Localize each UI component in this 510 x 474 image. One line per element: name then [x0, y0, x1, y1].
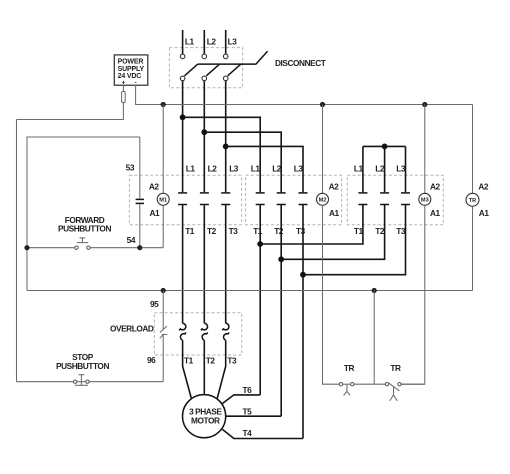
wire: M3 coil A1 lead down to TR contact — [401, 205, 425, 384]
wire: stop pushbutton line — [17, 381, 74, 383]
svg-text:T2: T2 — [207, 226, 217, 236]
contactor M2 dashed enclosure — [246, 175, 342, 225]
wire: phase C from disconnect to M1 contact — [225, 81, 227, 193]
M3 main contact pole 2 — [380, 193, 389, 205]
wire: L1 incoming line — [182, 30, 184, 54]
svg-text:T1: T1 — [184, 355, 194, 365]
wire: +24V from power supply — [122, 85, 124, 91]
svg-text:T1: T1 — [253, 226, 263, 236]
wire: overload to motor T2 — [203, 340, 205, 395]
wire: tie M2 T3 to M3 T3 — [303, 205, 406, 275]
svg-text:TR: TR — [344, 363, 355, 373]
M3 main contact pole 1 — [358, 193, 367, 205]
wire: M3 star bridge bar — [363, 145, 406, 147]
svg-text:L3: L3 — [228, 37, 238, 47]
svg-text:A2: A2 — [149, 181, 160, 191]
wire: M3 L3 drop — [405, 146, 407, 192]
node: phase A tap — [180, 114, 186, 120]
forward pushbutton PB1 (NO) — [75, 238, 90, 250]
M3 main contact pole 3 — [401, 193, 410, 205]
wire: motor T6 lead — [222, 395, 260, 404]
wire: M1 T2 to overload heater — [203, 205, 205, 324]
svg-text:A2: A2 — [478, 181, 489, 191]
svg-text:T6: T6 — [243, 385, 253, 395]
overload heater OL3 — [222, 323, 229, 330]
svg-text:T3: T3 — [296, 226, 306, 236]
node: M2 T1 / M3 T1 junction — [257, 241, 263, 247]
svg-text:A1: A1 — [479, 208, 490, 218]
TR timed contact 1 (closing) — [339, 383, 354, 396]
svg-text:A1: A1 — [430, 208, 441, 218]
svg-text:T1: T1 — [185, 226, 195, 236]
wire: M1 coil A2 lead — [162, 105, 164, 194]
svg-text:L1: L1 — [186, 164, 196, 174]
M1 main contact pole 2 — [200, 193, 209, 205]
svg-text:M2: M2 — [319, 198, 327, 204]
wire: +24V down and left to rail — [17, 102, 124, 119]
svg-text:T2: T2 — [274, 226, 284, 236]
svg-text:DISCONNECT: DISCONNECT — [275, 58, 326, 68]
overload NC contact 95-96 — [160, 326, 168, 338]
wire: -24V from power supply to coil bus — [136, 85, 473, 104]
node: overload branch — [161, 288, 166, 293]
M2 main contact pole 3 — [299, 193, 308, 205]
svg-text:L3: L3 — [396, 164, 406, 174]
coil M3 — [419, 193, 431, 205]
node: M3 coil bus tap — [422, 102, 427, 107]
wire: aux contact 54 lead — [139, 204, 141, 248]
fuse F1 — [122, 92, 126, 103]
svg-text:L1: L1 — [185, 37, 195, 47]
svg-text:M1: M1 — [159, 198, 167, 204]
wire: phase C feeder to M2 — [226, 146, 303, 192]
svg-text:L2: L2 — [272, 164, 282, 174]
power supply PS1 box — [114, 55, 148, 87]
TR timed contact 2 (opening) — [385, 383, 401, 401]
svg-text:PUSHBUTTON: PUSHBUTTON — [58, 223, 111, 233]
wire: TR contact row segments — [343, 383, 351, 385]
svg-text:T1: T1 — [354, 226, 364, 236]
wire: M3 L2 drop — [384, 146, 386, 192]
disconnect gang linkage and handle — [198, 51, 268, 64]
svg-text:A2: A2 — [430, 181, 441, 191]
wire: forward pushbutton line left — [27, 247, 75, 249]
coil M2 — [317, 193, 329, 205]
wire: M2 T2 lead down — [280, 205, 282, 417]
wire: M2 T3 lead down — [302, 205, 304, 439]
node: M2 coil bus tap — [320, 102, 325, 107]
wire: M3 coil A2 lead — [424, 105, 426, 194]
svg-text:A2: A2 — [329, 181, 340, 191]
svg-text:POWER: POWER — [118, 59, 144, 66]
svg-text:96: 96 — [147, 355, 156, 365]
disconnect switch pole 1 — [180, 54, 198, 81]
svg-text:OVERLOAD: OVERLOAD — [110, 323, 154, 333]
stop pushbutton PB2 (NC) — [74, 375, 90, 386]
svg-text:L3: L3 — [229, 164, 239, 174]
wire: bus drop to TR coil — [472, 105, 474, 194]
svg-text:T4: T4 — [243, 428, 253, 438]
svg-text:TR: TR — [390, 363, 401, 373]
svg-text:T3: T3 — [227, 355, 237, 365]
M1 main contact pole 3 — [221, 193, 230, 205]
disconnect switch pole 3 — [223, 54, 241, 81]
wire: overload to motor T1 — [183, 340, 192, 400]
wire: retaining branch top — [27, 137, 140, 291]
svg-text:54: 54 — [127, 235, 136, 245]
wire: M2 coil A2 lead — [322, 105, 324, 194]
svg-text:T5: T5 — [243, 406, 253, 416]
wire: M3 L1 drop — [362, 146, 364, 192]
wire: left +24V rail — [16, 120, 18, 382]
node: M2 T2 / M3 T2 junction — [278, 256, 284, 262]
svg-text:L2: L2 — [208, 164, 218, 174]
contactor M3 dashed enclosure — [347, 175, 443, 225]
svg-text:A1: A1 — [329, 208, 340, 218]
wire: overload 95 lead — [162, 291, 164, 331]
contactor M1 dashed enclosure — [129, 175, 241, 225]
disconnect dashed enclosure — [169, 48, 242, 88]
wire: motor T5 lead — [226, 415, 282, 417]
wire: M2 coil A1 lead down to TR contact — [323, 205, 340, 384]
wire: M1 coil A1 lead — [162, 205, 164, 247]
wire: overload 96 lead to stop line — [162, 335, 164, 382]
svg-text:MOTOR: MOTOR — [191, 415, 220, 425]
wire: TR branch drop — [373, 291, 375, 385]
overload heater OL1 — [179, 323, 186, 330]
node: TR contact branch — [372, 288, 377, 293]
wire: tie M2 T2 to M3 T2 — [281, 205, 384, 260]
svg-text:M3: M3 — [421, 198, 429, 204]
M1 main contact pole 1 — [178, 193, 187, 205]
M1 aux contact 53-54 — [136, 199, 144, 203]
wire: forward pushbutton line right to M1 A1 — [90, 247, 163, 249]
svg-text:L3: L3 — [294, 164, 304, 174]
wire: L2 incoming line — [203, 30, 205, 54]
M2 main contact pole 1 — [256, 193, 265, 205]
svg-text:L1: L1 — [251, 164, 261, 174]
M2 main contact pole 2 — [277, 193, 286, 205]
svg-text:T2: T2 — [375, 226, 385, 236]
overload heater OL2 — [201, 323, 208, 330]
svg-text:T3: T3 — [396, 226, 406, 236]
wire: overload to motor T3 — [217, 340, 226, 400]
node: phase C tap — [223, 144, 229, 150]
svg-text:L2: L2 — [207, 37, 217, 47]
node: star bridge junction — [382, 144, 388, 150]
coil TR — [466, 193, 479, 206]
svg-text:L2: L2 — [375, 164, 385, 174]
motor MTR circle — [183, 395, 226, 438]
wire: L3 incoming line — [225, 30, 227, 54]
svg-text:SUPPLY: SUPPLY — [118, 66, 145, 73]
wire: M2 T1 lead down — [259, 205, 261, 395]
wire: TR coil A1 lead — [472, 206, 474, 290]
wire: aux contact 53 lead — [139, 137, 141, 199]
svg-text:T3: T3 — [229, 226, 239, 236]
svg-text:95: 95 — [150, 299, 159, 309]
overload dashed enclosure — [154, 313, 241, 355]
svg-text:PUSHBUTTON: PUSHBUTTON — [56, 361, 109, 371]
wire: phase A from disconnect to M1 contact — [182, 81, 184, 193]
wire: control common line — [27, 290, 473, 292]
wire: M1 T3 to overload heater — [225, 205, 227, 324]
node: M2 T3 / M3 T3 junction — [300, 272, 306, 278]
node: left rail / forward line — [24, 245, 29, 250]
coil M1 — [157, 193, 169, 205]
wire: tie M2 T1 to M3 T1 — [260, 205, 363, 245]
svg-text:L1: L1 — [354, 164, 364, 174]
node: M1 coil bus tap — [161, 102, 166, 107]
wire: M1 T1 to overload heater — [182, 205, 184, 324]
disconnect switch pole 2 — [202, 54, 220, 81]
wire: motor T4 lead — [222, 429, 303, 438]
node: phase B tap — [201, 129, 207, 135]
svg-text:A1: A1 — [150, 208, 161, 218]
svg-text:T2: T2 — [206, 355, 216, 365]
node: aux 54 / forward line — [137, 245, 142, 250]
svg-text:TR: TR — [469, 198, 476, 204]
wire: phase B feeder to M2 — [204, 132, 281, 192]
wire: phase B from disconnect to M1 contact — [203, 81, 205, 193]
svg-text:53: 53 — [126, 163, 135, 173]
wire: phase A feeder to M2 — [183, 117, 261, 192]
